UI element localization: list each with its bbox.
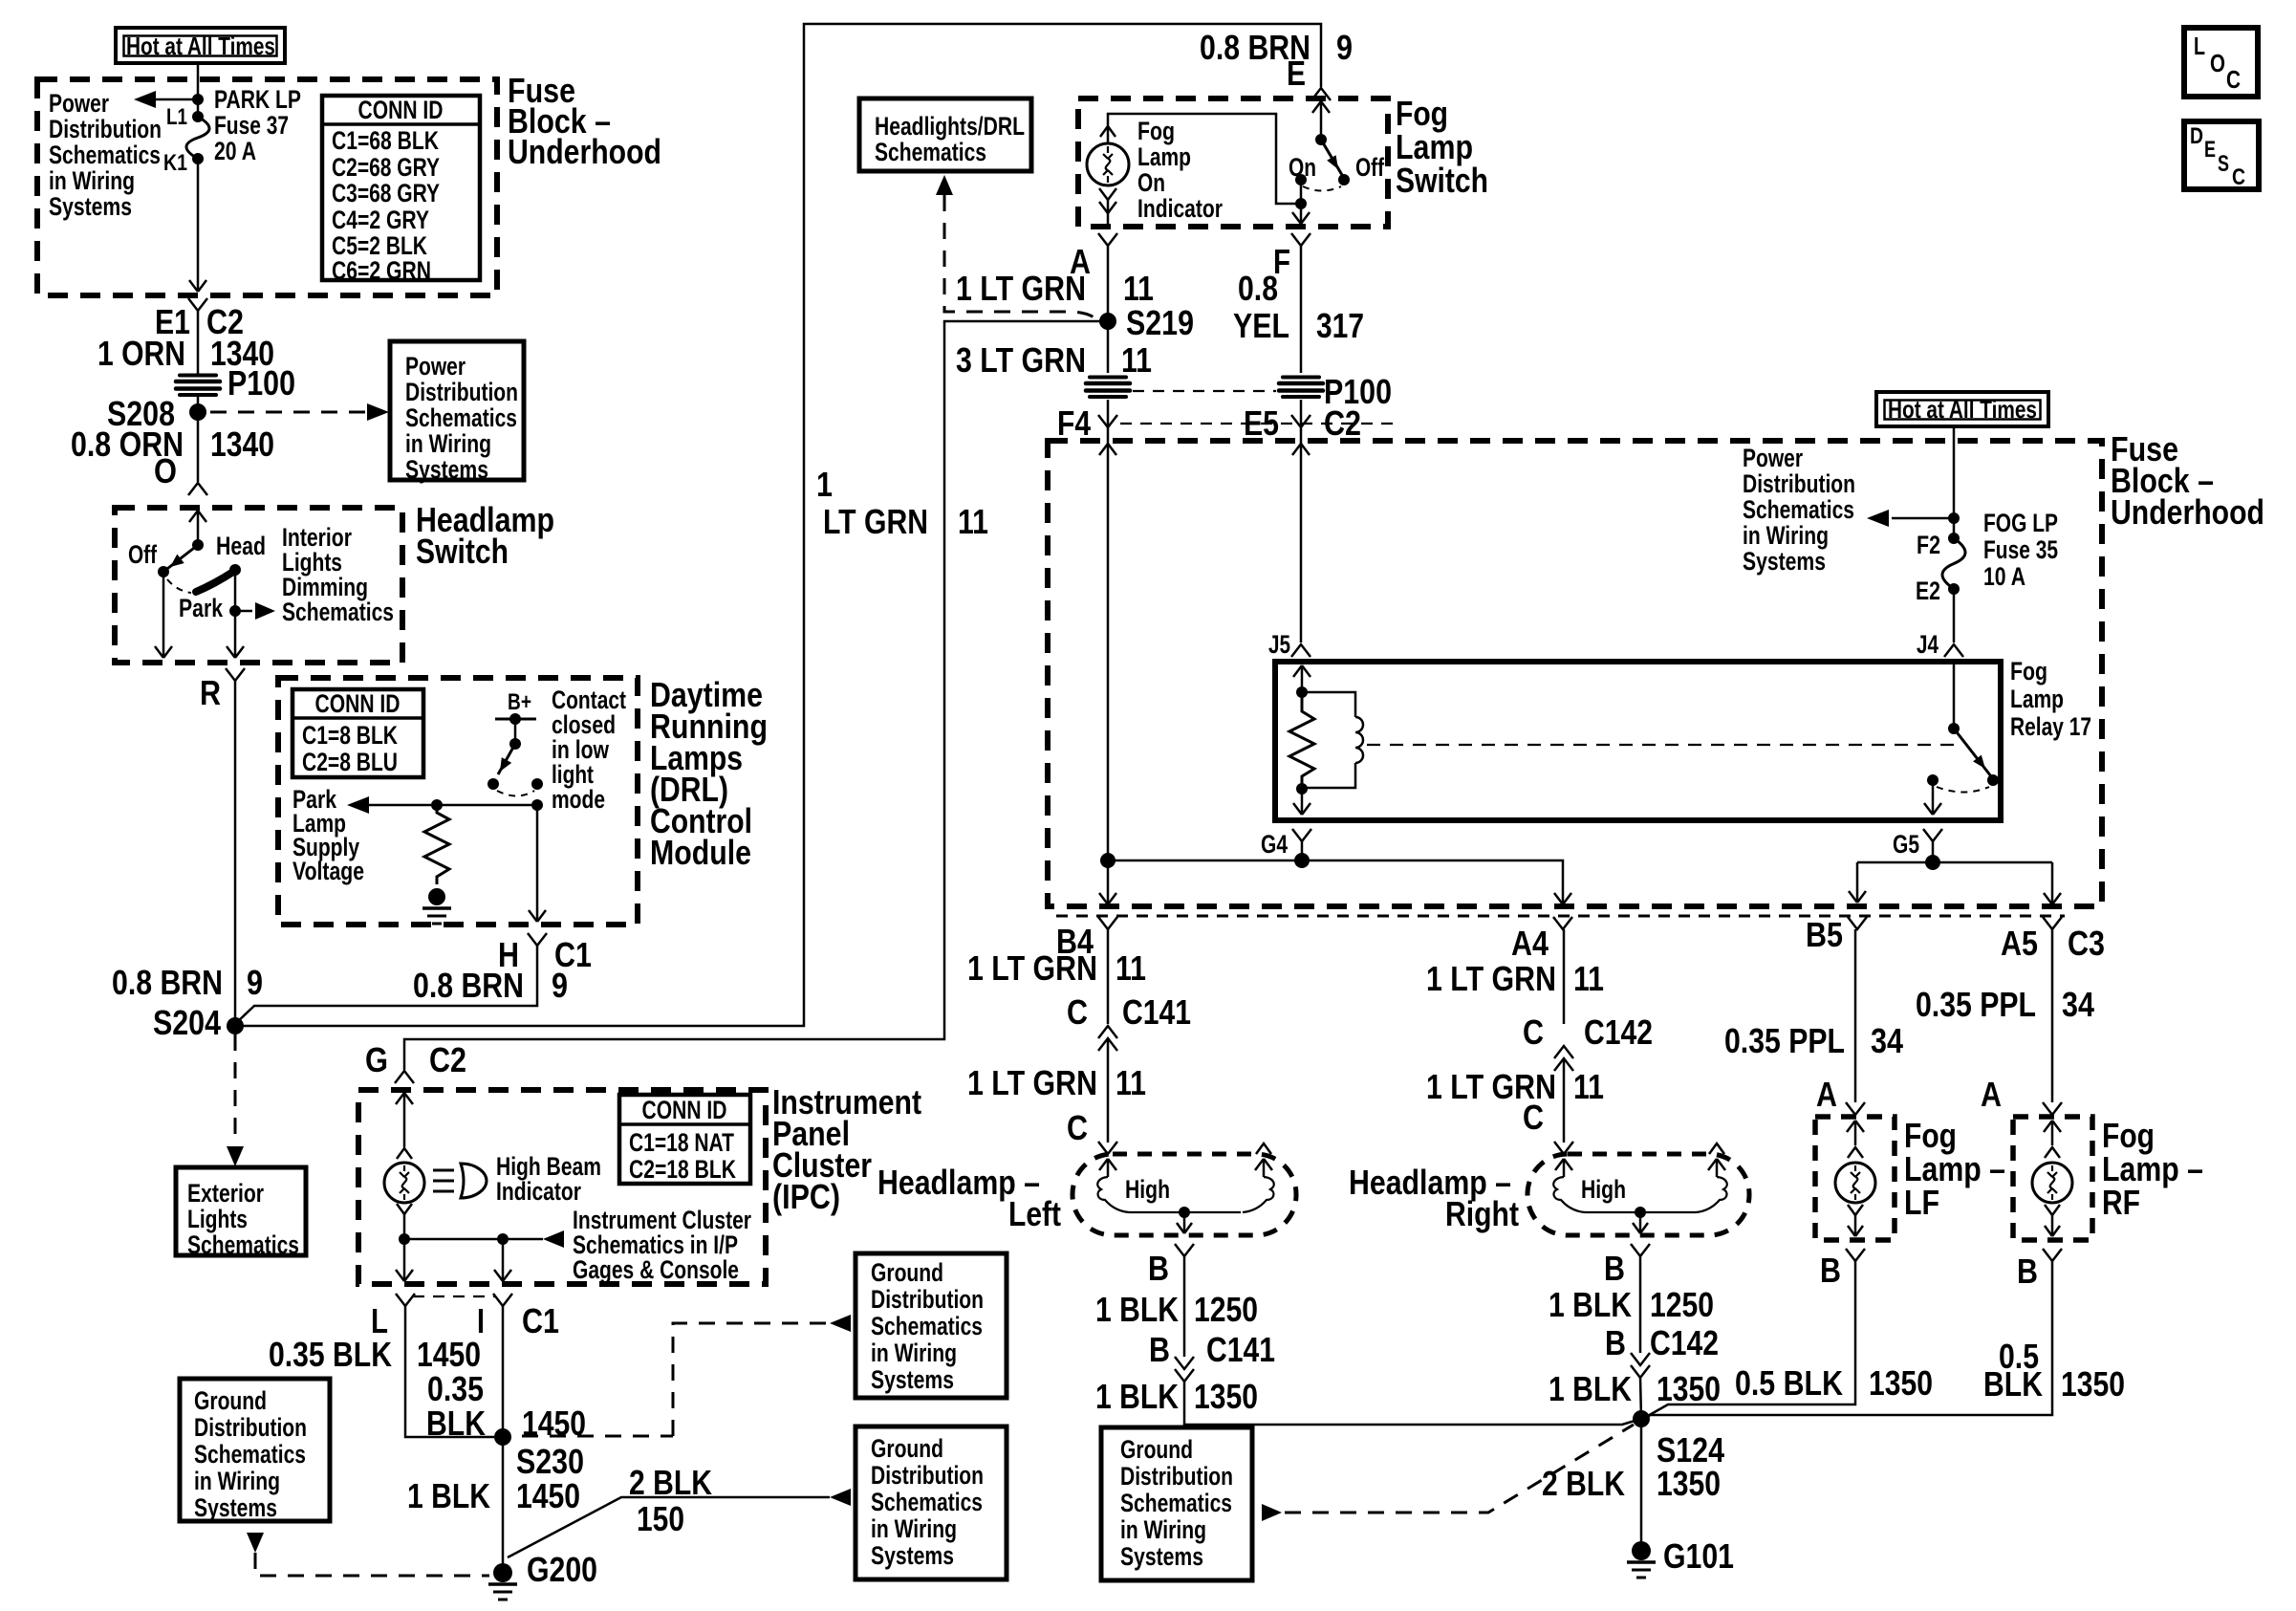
pin A of fog lamp switch [1098, 233, 1117, 246]
connector P100 (left) [176, 376, 220, 396]
svg-text:B: B [2017, 1252, 2038, 1291]
connector C3 dashed face [1056, 915, 2065, 918]
svg-text:D: D [2190, 123, 2203, 149]
svg-text:Underhood: Underhood [2111, 492, 2264, 532]
svg-text:C1=68 BLK: C1=68 BLK [332, 126, 439, 155]
wire: Hot at All Times into fuse F2 [1953, 426, 1956, 538]
relay coil exit to G4 [1301, 789, 1304, 815]
fuse block underhood (left) dashed box [37, 79, 497, 295]
svg-text:1350: 1350 [1194, 1377, 1258, 1416]
svg-text:P100: P100 [227, 363, 295, 403]
svg-text:1340: 1340 [210, 425, 274, 464]
fog lamp on indicator bulb [1100, 126, 1116, 137]
headlamp switch feed wire + entry arrow [189, 511, 198, 522]
svg-text:Schematics: Schematics [1120, 1489, 1232, 1517]
LOC index box [2184, 28, 2258, 97]
svg-text:1 LT GRN: 1 LT GRN [956, 269, 1086, 308]
svg-text:150: 150 [637, 1499, 684, 1538]
svg-text:Fog: Fog [1137, 117, 1175, 145]
svg-text:Systems: Systems [871, 1365, 954, 1394]
svg-text:Schematics: Schematics [875, 138, 986, 166]
DESC index box [2184, 121, 2259, 189]
ground (DRL internal) [428, 888, 445, 905]
connector C2 dashed face [1120, 423, 1396, 425]
svg-text:Ground: Ground [871, 1258, 943, 1287]
pin C of headlamp left [1098, 1142, 1117, 1154]
dashed actuator link [1367, 744, 1960, 746]
fog lamp RF bulb [2044, 1121, 2052, 1132]
CONN ID table (DRL) [292, 689, 423, 777]
wire: B4 to C141 [1107, 929, 1110, 1024]
svg-text:C: C [1523, 1012, 1544, 1052]
svg-text:Switch: Switch [1396, 161, 1488, 200]
svg-text:in Wiring: in Wiring [49, 166, 135, 195]
splice S204 [227, 1017, 244, 1034]
svg-text:0.35 BLK: 0.35 BLK [269, 1335, 392, 1374]
wire: E1 to P100 [197, 311, 200, 374]
pin A5 [2043, 917, 2062, 929]
IPC output wires L and I [403, 1239, 406, 1281]
svg-text:B: B [1820, 1251, 1841, 1290]
DRL contact arm [498, 744, 515, 774]
svg-text:1 BLK: 1 BLK [1095, 1377, 1179, 1416]
svg-text:1350: 1350 [1657, 1464, 1721, 1503]
ground G101 [1632, 1541, 1651, 1560]
svg-text:1 BLK: 1 BLK [1095, 1290, 1179, 1329]
svg-text:10 A: 10 A [1983, 562, 2025, 591]
pin F of fog lamp switch [1291, 233, 1310, 246]
svg-text:A: A [1981, 1075, 2002, 1114]
pin R of headlamp switch [226, 668, 245, 681]
IPC G entry arrow + wire to indicator [396, 1093, 404, 1104]
svg-text:Distribution: Distribution [1120, 1462, 1233, 1491]
svg-text:G200: G200 [527, 1550, 597, 1589]
svg-text:C1=8 BLK: C1=8 BLK [302, 721, 398, 750]
svg-text:317: 317 [1316, 306, 1364, 345]
svg-text:C4=2 GRY: C4=2 GRY [332, 206, 429, 234]
svg-text:1350: 1350 [2061, 1364, 2125, 1404]
svg-text:Off: Off [1355, 153, 1385, 182]
svg-text:C142: C142 [1584, 1012, 1653, 1052]
pin G5 of relay [1923, 829, 1942, 841]
svg-text:3 LT GRN: 3 LT GRN [956, 340, 1086, 380]
pin L of IPC [396, 1294, 415, 1306]
relay switch contacts + dashed arc [1987, 774, 1999, 786]
wire: S230 to G200 [502, 1437, 505, 1573]
svg-text:(IPC): (IPC) [772, 1177, 840, 1216]
wire: E5 to relay J5 [1300, 427, 1303, 642]
dashed ref: Headlights/DRL box to S219 [936, 175, 953, 195]
svg-text:1 LT GRN: 1 LT GRN [967, 948, 1097, 988]
svg-text:34: 34 [1871, 1021, 1903, 1060]
svg-text:Fog: Fog [2010, 657, 2047, 686]
ref box: Ground Distribution (mid lower) [856, 1426, 1007, 1579]
indicator return bus + junctions [403, 1214, 406, 1239]
svg-text:1 ORN: 1 ORN [97, 334, 185, 373]
fog switch contacts On/Off + dashed arc [1295, 174, 1307, 185]
svg-text:K1: K1 [163, 150, 187, 176]
rotor thick arc to Park contact [196, 572, 233, 592]
wire: R to S204 [234, 681, 237, 1026]
svg-text:Module: Module [650, 833, 751, 872]
dashed ref: I/S230 to Ground Distribution (upper) [522, 1435, 673, 1438]
park lamp supply arrow + bus [347, 796, 369, 814]
G5 bus wire to B5/A5 [1932, 841, 1935, 862]
svg-text:S: S [2218, 151, 2229, 177]
svg-text:Underhood: Underhood [508, 132, 661, 171]
svg-text:A: A [1816, 1075, 1837, 1114]
svg-text:C: C [2232, 164, 2245, 190]
svg-text:1350: 1350 [1869, 1363, 1933, 1403]
wire: C142 to S124 [1640, 1378, 1641, 1419]
svg-text:C: C [2226, 65, 2241, 94]
svg-text:F4: F4 [1057, 403, 1091, 443]
fuse F35 FOG LP 10A [1948, 533, 1960, 544]
svg-text:CONN ID: CONN ID [315, 689, 401, 718]
ground G200 [493, 1563, 512, 1582]
svg-text:Lamp: Lamp [1137, 142, 1191, 171]
svg-text:LT GRN: LT GRN [823, 502, 928, 541]
svg-text:Distribution: Distribution [194, 1413, 307, 1442]
connector P100 (A side) [1086, 378, 1130, 398]
svg-text:C2: C2 [429, 1040, 466, 1079]
fuse block underhood (right) dashed box [1048, 441, 2102, 906]
DRL contact points + dashed arc [487, 778, 499, 790]
label box: Hot at All Times (right) [1876, 392, 2048, 426]
pin G C2 of IPC [395, 1071, 414, 1083]
svg-text:G4: G4 [1261, 830, 1288, 859]
svg-text:11: 11 [1573, 959, 1604, 998]
svg-text:Voltage: Voltage [292, 857, 364, 885]
svg-text:S219: S219 [1126, 303, 1194, 342]
svg-text:YEL: YEL [1233, 306, 1289, 345]
svg-text:1 BLK: 1 BLK [1549, 1369, 1632, 1408]
wire: F to P100 [1300, 246, 1303, 373]
svg-text:1250: 1250 [1194, 1290, 1258, 1329]
pin J4 of relay [1944, 644, 1963, 657]
wire: fuse output to box edge [197, 159, 200, 292]
svg-text:RF: RF [2102, 1183, 2140, 1222]
svg-text:2 BLK: 2 BLK [629, 1463, 712, 1502]
dashed ref: left Ground Distribution to G200 [247, 1533, 264, 1553]
svg-text:Systems: Systems [1743, 547, 1826, 576]
svg-text:C3: C3 [2068, 924, 2105, 963]
svg-text:B5: B5 [1806, 915, 1843, 954]
headlamp right B output [1635, 1207, 1646, 1218]
svg-text:0.8: 0.8 [1238, 269, 1278, 308]
wire: B to C142 (ground side) [1639, 1256, 1642, 1353]
svg-text:in Wiring: in Wiring [871, 1339, 957, 1367]
dashed ref: S204 down to Exterior Lights [234, 1034, 237, 1143]
ref box: Ground Distribution (far left) [180, 1379, 330, 1521]
svg-text:L1: L1 [166, 104, 187, 130]
svg-text:1350: 1350 [1657, 1369, 1721, 1408]
svg-text:C1: C1 [522, 1301, 559, 1340]
headlamp left high filament [1099, 1159, 1108, 1170]
pin E of fog lamp switch [1311, 88, 1331, 100]
svg-text:Switch: Switch [416, 532, 509, 571]
svg-text:High: High [1125, 1175, 1170, 1204]
CONN ID table (IPC) [619, 1095, 750, 1184]
svg-text:Ground: Ground [194, 1386, 267, 1415]
splice S208 [189, 403, 206, 421]
switch pivot [192, 539, 204, 551]
svg-text:Systems: Systems [1120, 1542, 1203, 1571]
svg-text:B: B [1149, 1330, 1170, 1369]
svg-text:0.35 PPL: 0.35 PPL [1916, 985, 2036, 1024]
svg-text:C: C [1067, 1108, 1088, 1147]
wire: I to S230 [502, 1306, 505, 1437]
IPC dashed box [358, 1090, 766, 1284]
svg-text:C141: C141 [1206, 1330, 1275, 1369]
On contact output wire [1300, 180, 1303, 224]
svg-text:in Wiring: in Wiring [1743, 521, 1829, 550]
svg-text:Schematics: Schematics [49, 141, 161, 169]
svg-text:E5: E5 [1244, 403, 1279, 443]
svg-text:9: 9 [552, 966, 568, 1005]
splice S230 [494, 1428, 511, 1446]
junction + arrow to Power Distribution note [192, 94, 204, 105]
svg-text:B+: B+ [508, 689, 531, 715]
svg-text:1 LT GRN: 1 LT GRN [967, 1063, 1097, 1102]
svg-text:C2: C2 [1324, 403, 1361, 443]
svg-text:Lamp: Lamp [2010, 685, 2064, 713]
Off output wire [162, 572, 165, 658]
svg-text:C2=8 BLU: C2=8 BLU [302, 748, 398, 776]
wire: G200 area to Ground Distribution (2 BLK 150) [508, 1497, 830, 1557]
svg-text:E2: E2 [1916, 577, 1940, 605]
svg-text:in Wiring: in Wiring [871, 1514, 957, 1543]
B4 exit wire [1107, 860, 1110, 889]
headlamp right high filament [1555, 1159, 1564, 1170]
svg-text:R: R [200, 673, 221, 712]
wire: fog RF B to S124 (0.5 BLK 1350) [1641, 1261, 2052, 1419]
svg-text:PARK LP: PARK LP [214, 85, 301, 114]
svg-text:S230: S230 [516, 1442, 584, 1481]
wire: L to S230 [405, 1306, 494, 1437]
pin G4 of relay [1292, 829, 1311, 841]
pin A4 [1553, 917, 1572, 929]
svg-text:0.35: 0.35 [427, 1369, 484, 1408]
svg-text:11: 11 [1123, 269, 1154, 308]
ref box: Power Distribution Schematics in Wiring Systems [390, 341, 524, 480]
svg-text:L: L [2194, 32, 2205, 60]
svg-text:9: 9 [1336, 28, 1353, 67]
ref box: Exterior Lights Schematics [176, 1167, 306, 1255]
svg-text:Power: Power [405, 352, 466, 381]
svg-text:1450: 1450 [516, 1476, 580, 1515]
svg-text:11: 11 [1573, 1067, 1604, 1106]
svg-text:High: High [1581, 1175, 1626, 1204]
svg-text:C141: C141 [1122, 992, 1191, 1032]
wire: fog LF B to S124 (0.5 BLK 1350) [1646, 1261, 1855, 1417]
wire: C142 to headlamp right pin C [1563, 1058, 1566, 1143]
svg-text:0.8 BRN: 0.8 BRN [413, 966, 524, 1005]
svg-text:G5: G5 [1893, 830, 1919, 859]
svg-text:Schematics: Schematics [405, 403, 517, 432]
fog lamp LF dashed box [1815, 1117, 1895, 1240]
wire: A4 to C142 [1563, 929, 1566, 1024]
headlamp switch dashed box [115, 508, 402, 663]
dashed ref: Ground Distribution to S124 [1262, 1504, 1282, 1521]
wire: B5 to fog lamp LF [1854, 929, 1857, 1102]
connector C1 dashed face [413, 1295, 495, 1297]
fog lamp switch dashed box [1078, 98, 1388, 227]
svg-text:11: 11 [958, 502, 988, 541]
svg-text:Gages & Console: Gages & Console [573, 1255, 739, 1284]
pin above headlamp right (right side) [1709, 1143, 1724, 1154]
svg-text:Fuse 37: Fuse 37 [214, 111, 289, 140]
svg-text:B: B [1148, 1249, 1169, 1288]
svg-text:CONN ID: CONN ID [358, 96, 444, 124]
wire: E2 to relay J4 [1953, 589, 1956, 642]
svg-text:C6=2 GRN: C6=2 GRN [332, 256, 431, 285]
headlamp left B output [1179, 1207, 1190, 1218]
svg-text:Park: Park [179, 594, 224, 622]
svg-text:0.8 BRN: 0.8 BRN [112, 963, 223, 1002]
dashed rotor arc [167, 579, 191, 593]
svg-text:Distribution: Distribution [871, 1285, 984, 1314]
svg-text:1250: 1250 [1650, 1285, 1714, 1324]
G4 bus wire to B4/A4 [1301, 841, 1304, 860]
svg-text:Schematics: Schematics [187, 1230, 299, 1259]
svg-text:CONN ID: CONN ID [642, 1096, 727, 1124]
wire: B to C141 (ground side) [1183, 1256, 1186, 1357]
high beam indicator bulb [397, 1148, 412, 1159]
junction + arrow to Power Distribution note (right) [1948, 512, 1960, 524]
DRL output wire to H [536, 805, 539, 922]
label box: Hot at All Times (left) [116, 28, 285, 63]
splice S124 [1633, 1410, 1650, 1427]
svg-text:Power: Power [1743, 444, 1803, 472]
svg-text:G101: G101 [1663, 1536, 1734, 1576]
svg-text:C: C [1067, 992, 1088, 1032]
connector E1 C2 pin [188, 298, 207, 311]
fog lamp LF bulb [1847, 1121, 1855, 1132]
pin B of fog lamp RF [2043, 1249, 2062, 1261]
svg-text:Schematics: Schematics [1743, 495, 1854, 524]
headlamp left dashed stadium [1072, 1154, 1296, 1235]
svg-text:1 BLK: 1 BLK [1549, 1285, 1632, 1324]
svg-text:C: C [1523, 1098, 1544, 1137]
wire: A5 to fog lamp RF [2051, 929, 2054, 1102]
svg-text:in Wiring: in Wiring [194, 1467, 280, 1495]
wire: F4 feed down into fuse block [1107, 427, 1110, 860]
relay coil [1302, 692, 1355, 717]
svg-text:Relay 17: Relay 17 [2010, 712, 2091, 741]
svg-text:Distribution: Distribution [405, 378, 518, 406]
indicator output wire [1107, 200, 1110, 226]
relay switch input from J4 [1953, 662, 1956, 729]
switch arm to Off contact [163, 545, 198, 572]
svg-text:A5: A5 [2001, 924, 2038, 963]
svg-text:0.5 BLK: 0.5 BLK [1735, 1363, 1843, 1403]
connector P100 (F side) + label [1279, 378, 1323, 398]
relay output wire to G5 [1932, 780, 1935, 815]
fog switch arm to Off [1321, 140, 1342, 175]
svg-text:Fuse 35: Fuse 35 [1983, 535, 2058, 564]
svg-text:Systems: Systems [405, 455, 488, 484]
svg-text:O: O [2210, 49, 2225, 77]
svg-text:Systems: Systems [871, 1541, 954, 1570]
wire: S204 to fog lamp switch E (0.8 BRN 9) [235, 24, 1321, 1026]
svg-text:C1=18 NAT: C1=18 NAT [629, 1128, 734, 1157]
svg-text:Exterior: Exterior [187, 1179, 264, 1208]
dashed reference arrow S208 to Power Distribution box [210, 411, 371, 414]
ref box: Headlights/DRL Schematics [859, 98, 1031, 171]
svg-text:in Wiring: in Wiring [405, 429, 491, 458]
relay resistor [1289, 692, 1314, 789]
svg-text:34: 34 [2062, 985, 2094, 1024]
svg-text:Ground: Ground [871, 1434, 943, 1463]
svg-text:in Wiring: in Wiring [1120, 1515, 1206, 1544]
fog lamp RF dashed box [2013, 1117, 2092, 1240]
svg-text:C2=18 BLK: C2=18 BLK [629, 1155, 736, 1184]
svg-text:A4: A4 [1511, 924, 1549, 963]
svg-text:J4: J4 [1917, 630, 1939, 659]
svg-text:E: E [2204, 137, 2216, 163]
svg-text:11: 11 [1116, 1063, 1146, 1102]
svg-text:Off: Off [128, 540, 158, 569]
svg-text:Headlights/DRL: Headlights/DRL [875, 112, 1025, 141]
Park output wire + junction + arrow to Interior Lights note [234, 570, 237, 658]
DRL control module dashed box [278, 678, 638, 925]
svg-text:BLK: BLK [1983, 1364, 2043, 1404]
svg-text:Indicator: Indicator [1137, 194, 1223, 223]
svg-text:Schematics: Schematics [871, 1488, 983, 1516]
svg-text:On: On [1137, 168, 1165, 197]
pin C of headlamp right [1554, 1142, 1573, 1154]
relay J5 entry + coil/resistor node [1293, 665, 1302, 677]
svg-text:E: E [1287, 54, 1306, 93]
svg-text:O: O [154, 451, 177, 490]
fog lamp on indicator branch wire [1108, 114, 1301, 204]
relay switch arm [1954, 729, 1991, 776]
wire: H down and left to S204 [235, 946, 537, 1024]
dashed link between P100 halves [1133, 390, 1276, 392]
P100 lower pins F4 / E5 [1107, 400, 1110, 426]
svg-text:11: 11 [1116, 948, 1146, 988]
CONN ID table (left fuse block) [322, 96, 480, 280]
svg-text:B: B [1605, 1323, 1626, 1362]
pin I of IPC [493, 1294, 512, 1306]
svg-text:LF: LF [1904, 1183, 1939, 1222]
svg-text:9: 9 [247, 963, 263, 1002]
svg-text:Distribution: Distribution [871, 1461, 984, 1490]
svg-text:Power: Power [49, 89, 109, 118]
svg-text:Hot at All Times: Hot at All Times [1888, 395, 2037, 424]
E entry arrow + wire to switch pivot [1312, 101, 1321, 113]
Park contact [229, 564, 241, 576]
wire: A to P100 [1107, 246, 1110, 373]
pin B of headlamp right [1631, 1244, 1650, 1256]
svg-text:Right: Right [1445, 1194, 1519, 1233]
resistor (DRL internal) [424, 805, 449, 884]
splice S219 [1099, 313, 1116, 330]
svg-text:2 BLK: 2 BLK [1542, 1464, 1625, 1503]
wire: S124 to G101 (2 BLK 1350) [1640, 1419, 1643, 1543]
fuse F37 PARK LP 20A [192, 111, 204, 122]
svg-text:0.35 PPL: 0.35 PPL [1724, 1021, 1845, 1060]
svg-text:1 BLK: 1 BLK [407, 1476, 490, 1515]
pin B5 [1848, 917, 1867, 929]
svg-text:Schematics: Schematics [194, 1440, 306, 1469]
pin J5 of relay [1291, 644, 1310, 657]
svg-text:Hot at All Times: Hot at All Times [126, 32, 275, 60]
svg-text:Indicator: Indicator [496, 1177, 581, 1206]
svg-text:F2: F2 [1917, 531, 1940, 559]
svg-text:Distribution: Distribution [1743, 469, 1855, 498]
